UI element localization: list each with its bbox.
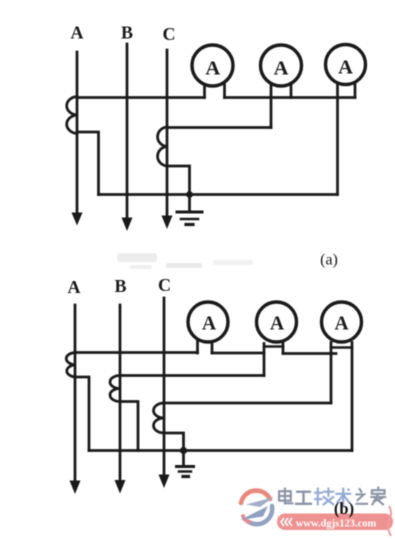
svg-text:(b): (b) <box>334 499 354 518</box>
svg-text:B: B <box>114 276 126 296</box>
svg-text:A: A <box>338 57 353 79</box>
svg-text:C: C <box>158 275 171 295</box>
svg-text:A: A <box>202 314 216 335</box>
svg-text:www.dgjs123.com: www.dgjs123.com <box>296 519 377 530</box>
svg-text:C: C <box>163 24 176 44</box>
svg-text:A: A <box>68 277 81 297</box>
svg-text:A: A <box>334 314 348 335</box>
svg-text:A: A <box>205 58 220 80</box>
svg-text:A: A <box>270 314 284 335</box>
svg-text:B: B <box>121 23 133 43</box>
svg-text:A: A <box>71 23 84 43</box>
svg-text:(a): (a) <box>320 252 338 269</box>
svg-text:A: A <box>274 58 289 80</box>
